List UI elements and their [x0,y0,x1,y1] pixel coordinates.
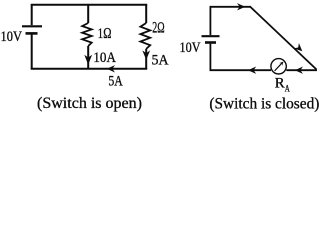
resistor R2 2-ohm zigzag [140,23,150,49]
svg-text:2Ω: 2Ω [152,20,165,37]
current arrow 5A branch head [142,50,150,59]
current arrow bottom-left head [248,67,256,74]
wire 2-ohm branch top [145,5,147,23]
wire left-circuit bottom [31,68,148,70]
svg-text:10V: 10V [180,40,201,56]
battery B2 short plate [205,41,216,44]
battery B1 short plate [26,32,38,35]
svg-text:1Ω: 1Ω [98,26,112,42]
wire right-circuit left top [209,7,211,35]
wire left-circuit left top [31,5,33,25]
wire right-circuit left bottom [209,44,211,71]
wire left-circuit left bottom [31,35,33,70]
switch blade diagonal (closed) [251,7,317,69]
wire left-circuit top [31,4,148,6]
ammeter RA needle arrowhead [279,62,283,66]
ammeter RA circle [271,59,286,74]
svg-text:A: A [285,84,290,94]
svg-text:5A: 5A [152,53,169,69]
svg-text:(Switch is open): (Switch is open) [37,95,142,112]
current arrow 10A head [84,55,92,65]
current arrow on diagonal head [294,43,303,51]
wire right-circuit top [210,6,252,8]
svg-text:5A: 5A [108,74,123,90]
resistor R1 1-ohm zigzag [82,23,92,46]
current arrow bottom-right head [295,67,303,74]
wire right-circuit bottom left segment [210,69,272,71]
wire 1-ohm branch bottom [87,46,89,69]
battery B2 long plate [202,35,220,37]
wire right-circuit bottom right segment [286,69,317,71]
battery B1 long plate [22,25,42,27]
wire 2-ohm branch bottom [145,49,147,69]
current arrow top head [237,3,245,10]
svg-text:R: R [275,76,285,92]
svg-text:(Switch is closed): (Switch is closed) [209,95,319,112]
wire 1-ohm branch top [87,5,89,23]
ammeter RA needle [275,63,282,71]
svg-text:10V: 10V [1,29,23,45]
svg-text:10A: 10A [93,50,116,66]
current arrow 5A bottom-wire head [107,65,115,72]
